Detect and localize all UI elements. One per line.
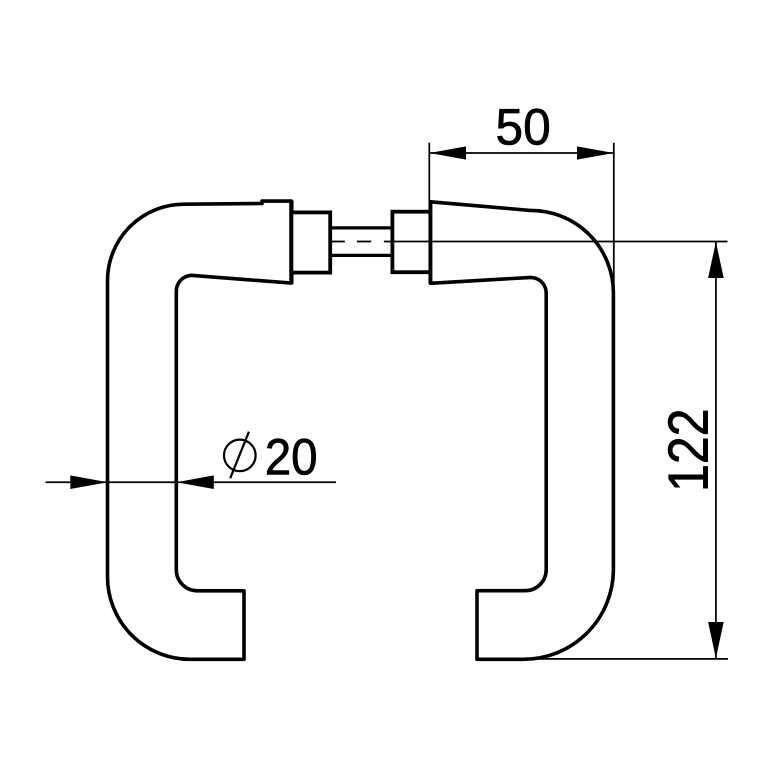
dim 50 arrow right: [577, 146, 614, 159]
right bearing block: [392, 212, 430, 273]
dim 50 extension line right: [613, 143, 615, 291]
diameter symbol circle: [224, 440, 256, 472]
dim 50 extension line left: [428, 143, 430, 201]
dim 122 bottom extension: [521, 658, 728, 660]
spindle top line: [330, 226, 392, 229]
dim 50 dimension line: [429, 152, 614, 154]
left handle collar edge: [289, 201, 293, 284]
dim 122 arrow top: [708, 242, 724, 278]
dim 20 dimension line: [46, 481, 337, 483]
dim 122 centreline extension: [384, 241, 728, 243]
dim 20 text: [267, 439, 316, 475]
right handle body outline: [431, 202, 614, 660]
left handle body outline: [108, 201, 292, 659]
spindle centreline dashes: [331, 241, 345, 243]
dim 122 arrow bottom: [708, 622, 724, 658]
dim 50 arrow left: [429, 146, 466, 159]
left bearing block: [291, 212, 330, 272]
dim 122 dimension line: [715, 242, 717, 659]
spindle bottom line: [330, 254, 392, 257]
dim 122 text: [668, 411, 708, 488]
diameter symbol slash: [230, 432, 249, 479]
dim 20 arrow left (pointing right): [70, 475, 107, 489]
dim 20 arrow right (pointing left): [176, 475, 213, 489]
dim 50 text: [498, 109, 549, 145]
right handle collar edge: [428, 201, 432, 284]
